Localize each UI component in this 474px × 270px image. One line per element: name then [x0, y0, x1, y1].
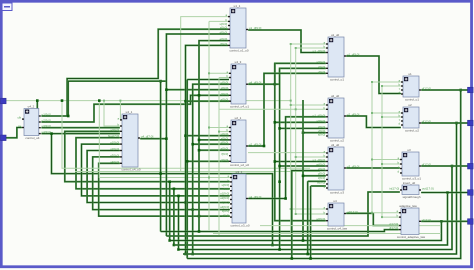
svg-text:u2[9:0]: u2[9:0]	[42, 119, 51, 123]
svg-text:u2[9:0]: u2[9:0]	[220, 196, 229, 200]
svg-text:u2_1: u2_1	[235, 116, 242, 120]
svg-text:u4_3: u4_3	[235, 60, 242, 64]
svg-text:u1_d[9:0]: u1_d[9:0]	[249, 26, 262, 30]
svg-text:u1[9:0]: u1[9:0]	[220, 192, 229, 196]
svg-text:u3[9:0]: u3[9:0]	[110, 153, 119, 157]
svg-text:d[17:0]: d[17:0]	[422, 163, 431, 167]
svg-text:control_u2: control_u2	[405, 128, 419, 132]
svg-text:u1_d[9:0]: u1_d[9:0]	[313, 158, 326, 162]
svg-text:f[9:0]: f[9:0]	[222, 152, 229, 156]
svg-text:control_u4_law: control_u4_law	[327, 226, 348, 230]
svg-text:in[17:0]: in[17:0]	[389, 187, 399, 191]
svg-text:ud[9:0]: ud[9:0]	[316, 119, 325, 123]
svg-text:bias: bias	[224, 187, 230, 191]
svg-text:d[17:0]: d[17:0]	[389, 226, 398, 230]
svg-text:control_u4_u1: control_u4_u1	[230, 104, 249, 108]
svg-text:control_u1_u0: control_u1_u0	[229, 48, 248, 52]
svg-text:bias[7:0]: bias[7:0]	[108, 134, 120, 138]
svg-text:control_adaptive_law: control_adaptive_law	[397, 235, 426, 239]
svg-text:u4_d[9:0]: u4_d[9:0]	[249, 195, 262, 199]
svg-text:u[9:0]: u[9:0]	[221, 81, 229, 85]
svg-text:u4_d[9:0]: u4_d[9:0]	[249, 81, 262, 85]
svg-text:d[17:0]: d[17:0]	[422, 120, 431, 124]
svg-text:control_u4_u0: control_u4_u0	[121, 167, 140, 171]
svg-text:u1[9:0]: u1[9:0]	[110, 141, 119, 145]
svg-text:z[9:0]: z[9:0]	[318, 133, 326, 137]
svg-text:control_u2: control_u2	[330, 138, 344, 142]
svg-text:out[17:0]: out[17:0]	[422, 187, 434, 191]
svg-text:u4[9:0]: u4[9:0]	[110, 160, 119, 164]
svg-text:ud[9:0]: ud[9:0]	[316, 163, 325, 167]
svg-text:e[9:0]: e[9:0]	[220, 37, 228, 41]
svg-text:u1: u1	[408, 72, 412, 76]
svg-text:control_u4: control_u4	[25, 136, 39, 140]
svg-text:control_u3_u1: control_u3_u1	[402, 176, 421, 180]
svg-text:u3[9:0]: u3[9:0]	[42, 124, 51, 128]
svg-text:y[9:0]: y[9:0]	[318, 172, 326, 176]
svg-text:u1[9:0]: u1[9:0]	[42, 113, 51, 117]
svg-text:u2_d[9:0]: u2_d[9:0]	[347, 113, 360, 117]
svg-text:d[9:0]: d[9:0]	[220, 31, 228, 35]
svg-text:z[9:0]: z[9:0]	[318, 176, 326, 180]
svg-text:u4_2: u4_2	[28, 105, 35, 109]
svg-text:control_u1: control_u1	[405, 97, 419, 101]
svg-text:u3[9:0]: u3[9:0]	[220, 200, 229, 204]
svg-text:e[9:0]: e[9:0]	[221, 147, 229, 151]
svg-text:u4: u4	[333, 199, 337, 203]
svg-text:y[9:0]: y[9:0]	[222, 214, 230, 218]
svg-text:u1_1: u1_1	[234, 4, 241, 8]
svg-text:u2_d[9:0]: u2_d[9:0]	[249, 143, 262, 147]
svg-text:e[9:0]: e[9:0]	[221, 98, 229, 102]
svg-text:x[9:0]: x[9:0]	[221, 86, 229, 90]
svg-text:u4_1: u4_1	[126, 110, 133, 114]
svg-text:u4_d[7:0]: u4_d[7:0]	[141, 135, 154, 139]
svg-text:g[9:0]: g[9:0]	[221, 158, 229, 162]
svg-text:x[9:0]: x[9:0]	[318, 167, 326, 171]
svg-text:ud[9:0]: ud[9:0]	[110, 128, 119, 132]
svg-text:ud[17:0]: ud[17:0]	[347, 210, 358, 214]
svg-text:u3: u3	[407, 148, 411, 152]
svg-text:ud[9:0]: ud[9:0]	[316, 60, 325, 64]
svg-text:u4[9:0]: u4[9:0]	[42, 130, 51, 134]
svg-text:ud[9:0]: ud[9:0]	[316, 217, 325, 221]
svg-text:control_u2_u0: control_u2_u0	[230, 163, 249, 167]
svg-text:y[17:0]: y[17:0]	[422, 218, 431, 222]
svg-text:u3_d[9:0]: u3_d[9:0]	[347, 165, 360, 169]
svg-text:u[9:0]: u[9:0]	[222, 183, 230, 187]
svg-text:control_u1: control_u1	[330, 77, 344, 81]
svg-text:x[9:0]: x[9:0]	[222, 209, 230, 213]
svg-text:u1_u0: u1_u0	[331, 33, 340, 37]
svg-text:f[9:0]: f[9:0]	[221, 42, 228, 46]
svg-text:u1_d[9:0]: u1_d[9:0]	[313, 49, 326, 53]
svg-text:d[9:0]: d[9:0]	[221, 92, 229, 96]
svg-text:control_u3: control_u3	[330, 190, 344, 194]
svg-text:u4[9:0]: u4[9:0]	[220, 205, 229, 209]
svg-text:signalthrough: signalthrough	[402, 195, 420, 199]
svg-text:control_u3_u0: control_u3_u0	[230, 223, 249, 227]
svg-text:u3_1: u3_1	[236, 170, 243, 174]
svg-text:x[9:0]: x[9:0]	[318, 65, 326, 69]
svg-text:d[17:0]: d[17:0]	[422, 87, 431, 91]
svg-text:x[9:0]: x[9:0]	[220, 26, 228, 30]
svg-text:u2[9:0]: u2[9:0]	[110, 147, 119, 151]
svg-text:u1_d[9:0]: u1_d[9:0]	[347, 53, 360, 57]
svg-text:u2: u2	[408, 103, 412, 107]
svg-text:clk: clk	[18, 116, 22, 120]
svg-text:d[9:0]: d[9:0]	[221, 141, 229, 145]
svg-text:u2_u0: u2_u0	[331, 94, 340, 98]
svg-text:ce: ce	[18, 124, 22, 128]
svg-text:insert_u0: insert_u0	[403, 181, 416, 185]
svg-text:u1_d[9:0]: u1_d[9:0]	[313, 113, 326, 117]
svg-text:y[9:0]: y[9:0]	[318, 70, 326, 74]
svg-text:u3_u0: u3_u0	[331, 143, 340, 147]
svg-text:adaptive_law: adaptive_law	[399, 204, 417, 208]
